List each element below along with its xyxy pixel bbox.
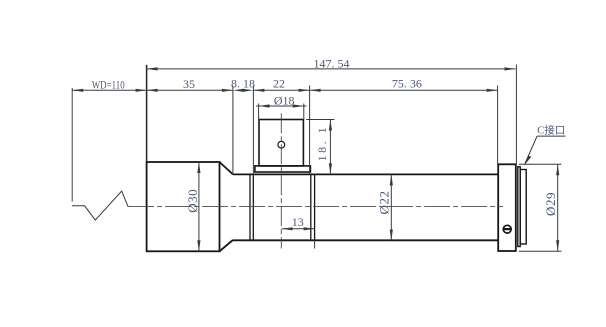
C-mount ring inner [520, 170, 526, 245]
svg-text:Ø30: Ø30 [185, 189, 200, 213]
label Ø22 [376, 191, 391, 215]
dimension 75.36 [310, 89, 498, 92]
label 13 [292, 215, 304, 229]
dimension Ø29 [519, 164, 562, 251]
dimension WD=110 [72, 89, 146, 92]
dimension Ø30 [197, 162, 200, 251]
svg-text:WD=110: WD=110 [92, 77, 125, 91]
screw hole on block [278, 141, 285, 148]
label 18.1 [315, 125, 329, 162]
label Ø29 [543, 192, 558, 216]
dimension Ø18 [256, 104, 307, 120]
label Ø18 [274, 94, 295, 108]
dimension 35 [147, 89, 233, 92]
label 75.36 [392, 77, 422, 91]
object plane extension line [71, 88, 73, 201]
dimension Ø22 [390, 174, 393, 240]
svg-text:C接口: C接口 [537, 124, 565, 137]
extension line flange rear [515, 65, 517, 165]
extension line flange front [497, 86, 499, 165]
barrel step edge 1 [310, 174, 312, 240]
label C接口 [537, 124, 565, 137]
extension line front face [146, 65, 148, 162]
svg-text:8. 18: 8. 18 [231, 77, 255, 91]
svg-text:Ø29: Ø29 [543, 192, 558, 216]
C-mount leader and label [524, 136, 566, 166]
set screw [503, 225, 512, 233]
top square block Ø18 [259, 120, 303, 166]
svg-text:35: 35 [183, 77, 195, 91]
dimension 147.54 [147, 67, 516, 70]
optical axis center line [128, 206, 503, 208]
rear flange Ø29 [498, 164, 516, 251]
neck ring edge 1 [249, 174, 251, 240]
label 22 [273, 77, 285, 91]
svg-text:147. 54: 147. 54 [314, 56, 350, 70]
block vertical center line [280, 113, 282, 248]
svg-text:13: 13 [292, 215, 304, 229]
mid barrel and Ø22 tube outline [233, 174, 498, 240]
dimension 22 [253, 89, 309, 92]
label 35 [183, 77, 195, 91]
svg-text:75. 36: 75. 36 [392, 77, 422, 91]
label WD=110 [92, 77, 125, 91]
extension line taper end [232, 86, 234, 175]
extension line barrel end [309, 86, 311, 175]
label 147.54 [314, 56, 350, 70]
barrel step edge 2 [314, 174, 316, 240]
extension line neck end [252, 86, 254, 175]
svg-text:22: 22 [273, 77, 285, 91]
taper cone section [220, 162, 233, 251]
dimension 18.1 [306, 120, 334, 175]
block base plate [255, 166, 311, 172]
dimension 13 [282, 227, 315, 248]
svg-text:Ø22: Ø22 [376, 191, 391, 215]
label 8.18 [231, 77, 255, 91]
svg-text:18. 1: 18. 1 [315, 125, 329, 162]
C-mount ring outer [518, 167, 520, 247]
neck ring edge 2 [252, 174, 254, 240]
svg-text:Ø18: Ø18 [274, 94, 295, 108]
dimension 8.18 [233, 89, 254, 92]
label Ø30 [185, 189, 200, 213]
lens front barrel Ø30 body [147, 162, 220, 251]
object plane break (zigzag) [72, 191, 128, 220]
